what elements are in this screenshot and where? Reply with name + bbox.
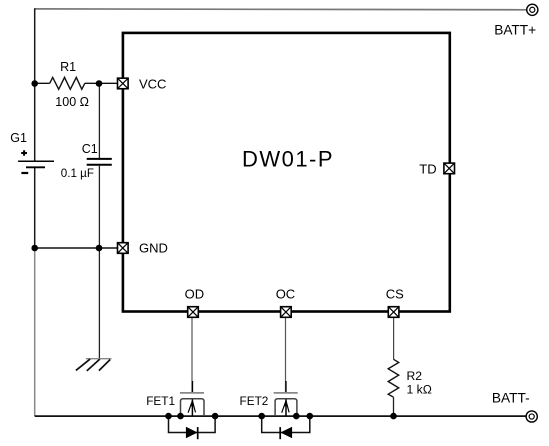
svg-text:R2: R2 [407, 369, 423, 383]
svg-text:DW01-P: DW01-P [242, 147, 334, 172]
svg-text:BATT-: BATT- [492, 391, 530, 406]
svg-text:R1: R1 [60, 60, 76, 74]
svg-text:0.1 µF: 0.1 µF [61, 167, 94, 180]
svg-text:BATT+: BATT+ [494, 22, 536, 37]
svg-text:TD: TD [419, 161, 436, 176]
svg-text:C1: C1 [82, 142, 98, 156]
svg-text:VCC: VCC [139, 77, 166, 92]
svg-text:OD: OD [185, 287, 205, 302]
svg-text:G1: G1 [10, 131, 27, 145]
svg-text:OC: OC [276, 287, 296, 302]
svg-text:1 kΩ: 1 kΩ [407, 382, 432, 396]
svg-text:100 Ω: 100 Ω [55, 95, 89, 109]
svg-text:GND: GND [139, 240, 168, 255]
svg-text:CS: CS [386, 287, 404, 302]
svg-text:FET2: FET2 [240, 394, 269, 408]
svg-text:FET1: FET1 [146, 394, 175, 408]
